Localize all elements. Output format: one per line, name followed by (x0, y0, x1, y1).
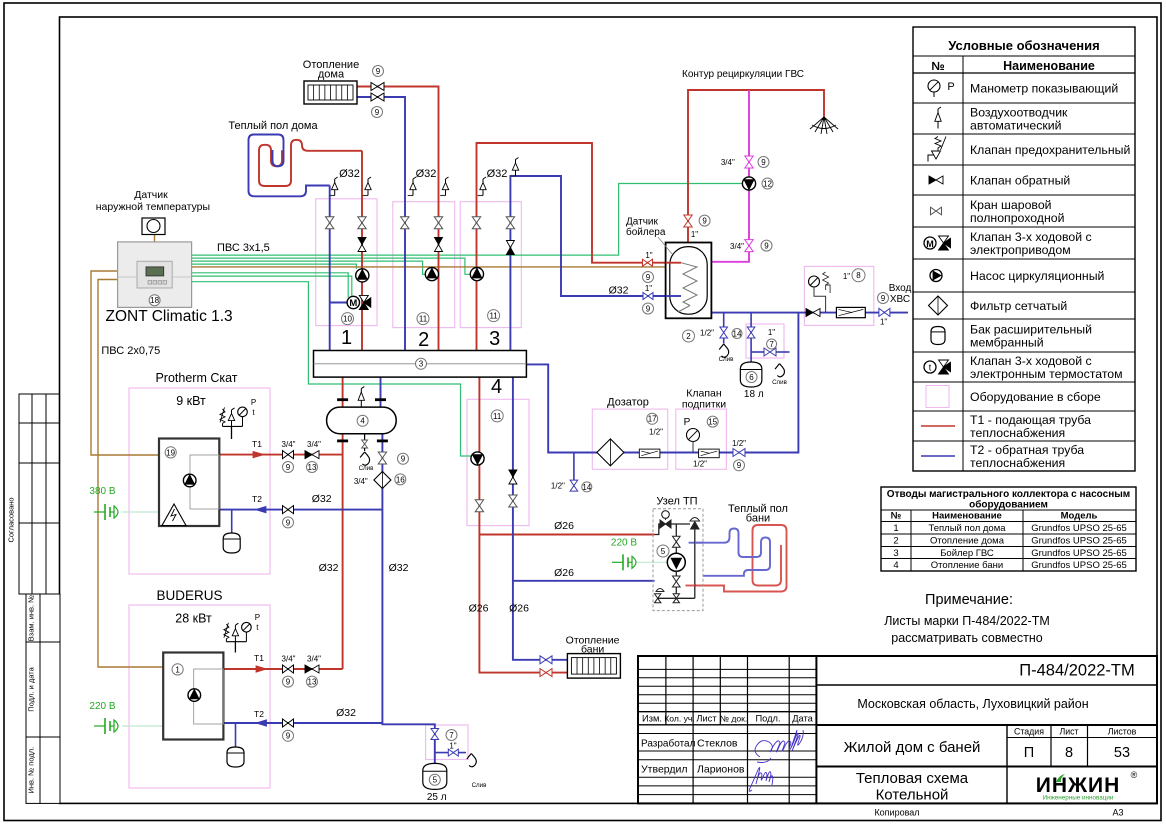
svg-text:Датчик: Датчик (626, 217, 658, 228)
svg-text:Московская область, Луховицкий: Московская область, Луховицкий район (857, 697, 1088, 711)
svg-text:9: 9 (764, 241, 769, 250)
svg-text:Бойлер ГВС: Бойлер ГВС (940, 548, 994, 559)
svg-text:1: 1 (175, 665, 180, 674)
svg-text:19: 19 (166, 448, 175, 457)
svg-text:1/2": 1/2" (551, 482, 565, 491)
svg-text:3: 3 (489, 328, 500, 350)
svg-text:Наименование: Наименование (932, 511, 1002, 522)
svg-text:9: 9 (646, 304, 651, 313)
svg-text:15: 15 (708, 417, 717, 426)
svg-text:Ø32: Ø32 (319, 562, 339, 574)
svg-text:1": 1" (768, 328, 775, 337)
svg-text:1/2": 1/2" (693, 460, 707, 469)
svg-text:№: № (931, 59, 944, 73)
svg-text:Т2: Т2 (252, 494, 262, 504)
svg-text:электронным термостатом: электронным термостатом (970, 367, 1123, 381)
svg-text:Подл. и дата: Подл. и дата (27, 666, 36, 711)
svg-text:1": 1" (843, 272, 850, 281)
svg-text:11: 11 (419, 314, 428, 323)
svg-text:Листы марки П-484/2022-ТМ: Листы марки П-484/2022-ТМ (884, 614, 1050, 628)
svg-text:теплоснабжения: теплоснабжения (970, 456, 1065, 470)
svg-text:®: ® (1131, 770, 1138, 780)
svg-text:Узел ТП: Узел ТП (656, 496, 697, 508)
svg-text:Разработал: Разработал (641, 738, 696, 750)
svg-text:Копировал: Копировал (874, 808, 919, 818)
svg-text:Ø32: Ø32 (416, 168, 437, 180)
svg-text:Подл.: Подл. (755, 714, 780, 724)
svg-text:9: 9 (286, 518, 291, 527)
svg-text:Отводы магистрального коллекто: Отводы магистрального коллектора с насос… (887, 489, 1130, 500)
svg-text:оборудованием: оборудованием (969, 499, 1048, 511)
svg-text:3/4": 3/4" (282, 654, 296, 663)
svg-text:ПВС 2х0,75: ПВС 2х0,75 (101, 345, 160, 357)
svg-text:Т2: Т2 (254, 709, 264, 719)
svg-text:Листов: Листов (1108, 727, 1137, 737)
svg-text:Ø26: Ø26 (509, 603, 529, 615)
svg-text:рассматривать совместно: рассматривать совместно (891, 631, 1042, 645)
svg-text:Grundfos UPSO 25-65: Grundfos UPSO 25-65 (1031, 548, 1127, 559)
svg-text:А3: А3 (1112, 808, 1123, 818)
svg-text:7: 7 (769, 340, 774, 349)
svg-text:6: 6 (749, 373, 754, 382)
svg-text:9 кВт: 9 кВт (176, 394, 206, 408)
svg-text:П-484/2022-ТМ: П-484/2022-ТМ (1019, 662, 1135, 680)
svg-text:Тепловая схема: Тепловая схема (856, 770, 969, 787)
svg-text:Т1: Т1 (254, 653, 264, 663)
svg-text:Вход: Вход (889, 283, 912, 294)
svg-text:7: 7 (449, 731, 454, 740)
svg-text:Ø32: Ø32 (609, 285, 629, 297)
svg-text:1": 1" (449, 742, 456, 751)
svg-text:Клапан 3-х ходовой с: Клапан 3-х ходовой с (970, 354, 1092, 368)
svg-text:11: 11 (489, 311, 498, 320)
svg-text:Слив: Слив (359, 465, 375, 472)
svg-text:наружной температуры: наружной температуры (96, 201, 210, 213)
svg-text:М: М (349, 298, 357, 309)
svg-text:28 кВт: 28 кВт (175, 612, 212, 626)
svg-text:1": 1" (645, 284, 652, 293)
svg-text:Отопление бани: Отопление бани (931, 560, 1003, 571)
svg-text:9: 9 (646, 273, 651, 282)
svg-text:220 В: 220 В (89, 701, 115, 712)
svg-text:Т1: Т1 (252, 439, 262, 449)
svg-text:Слив: Слив (719, 356, 735, 363)
svg-text:Примечание:: Примечание: (925, 592, 1013, 608)
svg-text:Модель: Модель (1061, 511, 1098, 522)
svg-text:3: 3 (893, 548, 898, 559)
svg-text:1/2": 1/2" (732, 439, 746, 448)
svg-text:ПВС 3х1,5: ПВС 3х1,5 (217, 242, 270, 254)
svg-text:14: 14 (582, 483, 591, 492)
svg-text:9: 9 (375, 108, 380, 117)
svg-text:электроприводом: электроприводом (970, 243, 1071, 257)
svg-text:полнопроходной: полнопроходной (970, 211, 1065, 225)
svg-text:P: P (251, 398, 256, 407)
svg-text:бойлера: бойлера (626, 226, 666, 238)
svg-text:2: 2 (686, 332, 691, 341)
svg-text:Отопление дома: Отопление дома (930, 536, 1005, 547)
svg-text:Ø26: Ø26 (554, 567, 574, 579)
svg-text:Жилой дом с баней: Жилой дом с баней (844, 739, 981, 756)
svg-text:ХВС: ХВС (890, 294, 910, 305)
svg-text:3/4": 3/4" (307, 440, 321, 449)
svg-text:9: 9 (737, 461, 742, 470)
svg-text:П: П (1024, 745, 1034, 761)
svg-text:8: 8 (856, 271, 861, 280)
svg-text:Слив: Слив (772, 379, 788, 386)
svg-text:4: 4 (893, 560, 898, 571)
svg-text:Лист: Лист (1059, 727, 1078, 737)
svg-text:Утвердил: Утвердил (641, 764, 688, 776)
svg-text:Условные обозначения: Условные обозначения (948, 38, 1099, 53)
svg-text:11: 11 (493, 412, 502, 421)
svg-text:Т2 - обратная труба: Т2 - обратная труба (970, 443, 1084, 457)
svg-text:9: 9 (881, 294, 886, 303)
svg-text:8: 8 (1065, 745, 1073, 761)
svg-text:Ø32: Ø32 (312, 493, 332, 505)
svg-text:Дозатор: Дозатор (607, 397, 649, 409)
svg-text:9: 9 (376, 67, 381, 76)
svg-text:Кол. уч.: Кол. уч. (664, 714, 695, 724)
svg-text:бани: бани (746, 513, 770, 525)
svg-text:3/4": 3/4" (730, 242, 744, 251)
svg-text:Датчик: Датчик (134, 189, 168, 201)
svg-text:Ø32: Ø32 (339, 168, 360, 180)
svg-text:подпитки: подпитки (682, 399, 726, 411)
svg-text:4: 4 (360, 417, 365, 426)
svg-text:бани: бани (581, 644, 604, 656)
svg-text:4: 4 (491, 376, 502, 398)
svg-text:Инженерные инновации: Инженерные инновации (1043, 795, 1114, 802)
svg-text:Клапан обратный: Клапан обратный (970, 173, 1070, 187)
svg-text:12: 12 (763, 179, 772, 188)
svg-text:18 л: 18 л (744, 389, 764, 400)
svg-text:Теплый пол дома: Теплый пол дома (228, 120, 318, 132)
svg-text:Инв. № подл.: Инв. № подл. (27, 747, 36, 794)
svg-text:Ø26: Ø26 (469, 603, 489, 615)
svg-text:P: P (947, 81, 954, 93)
svg-text:13: 13 (308, 463, 317, 472)
svg-text:ZONT Climatic 1.3: ZONT Climatic 1.3 (106, 308, 233, 325)
svg-text:1: 1 (341, 327, 352, 349)
svg-text:1": 1" (645, 251, 652, 260)
svg-text:Взам. инв. №: Взам. инв. № (27, 595, 36, 641)
svg-text:Grundfos UPSO 25-65: Grundfos UPSO 25-65 (1031, 560, 1127, 571)
svg-text:380 В: 380 В (89, 486, 115, 497)
svg-text:Наименование: Наименование (1003, 59, 1095, 73)
svg-text:Клапан 3-х ходовой с: Клапан 3-х ходовой с (970, 230, 1092, 244)
svg-text:Бак расширительный: Бак расширительный (970, 323, 1092, 337)
svg-text:1": 1" (880, 318, 887, 327)
svg-text:Ø32: Ø32 (389, 562, 409, 574)
svg-text:Protherm Скат: Protherm Скат (155, 371, 237, 385)
svg-text:№: № (891, 511, 902, 522)
svg-text:мембранный: мембранный (970, 336, 1044, 350)
svg-text:№ док.: № док. (720, 714, 748, 724)
svg-text:Изм.: Изм. (642, 714, 662, 724)
svg-text:автоматический: автоматический (970, 119, 1062, 133)
svg-text:53: 53 (1114, 745, 1130, 761)
svg-text:1": 1" (691, 230, 698, 239)
svg-text:М: М (926, 239, 934, 249)
svg-text:2: 2 (418, 329, 429, 351)
svg-text:Т1 - подающая труба: Т1 - подающая труба (970, 413, 1091, 427)
svg-text:25 л: 25 л (427, 792, 447, 803)
svg-text:9: 9 (401, 455, 406, 464)
svg-text:1/2": 1/2" (700, 329, 714, 338)
svg-text:14: 14 (733, 329, 742, 338)
svg-text:Котельной: Котельной (876, 787, 949, 804)
svg-text:3/4": 3/4" (307, 654, 321, 663)
svg-text:Grundfos UPSO 25-65: Grundfos UPSO 25-65 (1031, 523, 1127, 534)
svg-text:BUDERUS: BUDERUS (156, 588, 222, 603)
svg-text:3: 3 (419, 360, 424, 369)
svg-text:9: 9 (702, 216, 707, 225)
svg-text:Согласовано: Согласовано (7, 497, 16, 542)
svg-text:Воздухоотводчик: Воздухоотводчик (970, 106, 1068, 120)
svg-text:Контур рециркуляции ГВС: Контур рециркуляции ГВС (682, 69, 804, 80)
svg-text:Ø32: Ø32 (487, 168, 508, 180)
svg-text:дома: дома (318, 69, 345, 81)
svg-text:220 В: 220 В (611, 538, 637, 549)
svg-text:1/2": 1/2" (649, 428, 663, 437)
svg-text:18: 18 (150, 296, 159, 305)
svg-text:Стеклов: Стеклов (697, 738, 738, 750)
svg-text:P: P (684, 417, 691, 428)
svg-text:9: 9 (286, 463, 291, 472)
svg-text:3/4": 3/4" (282, 440, 296, 449)
svg-text:16: 16 (396, 475, 405, 484)
svg-text:Кран шаровой: Кран шаровой (970, 198, 1052, 212)
svg-text:3/4": 3/4" (721, 158, 735, 167)
svg-text:Ларионов: Ларионов (697, 764, 745, 776)
svg-text:9: 9 (761, 158, 766, 167)
svg-text:Оборудование в сборе: Оборудование в сборе (970, 390, 1101, 404)
svg-text:5: 5 (661, 547, 666, 556)
svg-text:Дата: Дата (792, 714, 813, 724)
svg-text:P: P (255, 613, 260, 622)
svg-text:Теплый пол дома: Теплый пол дома (928, 523, 1006, 534)
svg-text:13: 13 (308, 677, 317, 686)
svg-text:Слив: Слив (472, 782, 488, 789)
svg-text:Grundfos UPSO 25-65: Grundfos UPSO 25-65 (1031, 536, 1127, 547)
svg-text:2: 2 (893, 536, 898, 547)
svg-text:Фильтр сетчатый: Фильтр сетчатый (970, 299, 1067, 313)
svg-text:Насос циркуляционный: Насос циркуляционный (970, 269, 1105, 283)
svg-text:Ø26: Ø26 (554, 520, 574, 532)
svg-text:Стадия: Стадия (1014, 727, 1044, 737)
svg-text:Ø32: Ø32 (336, 707, 356, 719)
svg-text:10: 10 (343, 314, 352, 323)
svg-text:9: 9 (286, 732, 291, 741)
svg-text:3/4": 3/4" (354, 477, 368, 486)
svg-text:Манометр показывающий: Манометр показывающий (970, 81, 1118, 95)
svg-text:Лист: Лист (696, 714, 717, 724)
svg-text:1: 1 (893, 523, 898, 534)
svg-text:Клапан предохранительный: Клапан предохранительный (970, 143, 1130, 157)
svg-text:5: 5 (433, 776, 438, 785)
svg-text:9: 9 (286, 677, 291, 686)
svg-text:теплоснабжения: теплоснабжения (970, 426, 1065, 440)
svg-text:17: 17 (648, 415, 657, 424)
